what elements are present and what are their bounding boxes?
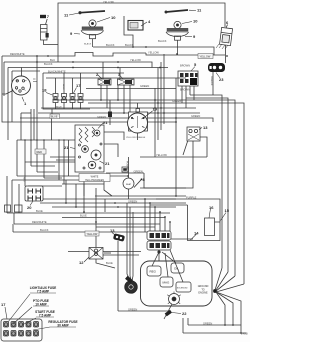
svg-text:20: 20 [27, 205, 32, 210]
svg-text:14: 14 [194, 231, 199, 236]
svg-text:BROWN: BROWN [180, 64, 190, 68]
svg-text:BLUE: BLUE [56, 106, 62, 108]
svg-text:GREEN: GREEN [134, 169, 143, 173]
svg-text:7: 7 [47, 14, 50, 19]
svg-text:11: 11 [64, 13, 69, 18]
svg-text:GREEN: GREEN [128, 199, 137, 203]
svg-text:YELLOW: YELLOW [148, 50, 159, 54]
svg-text:BROWN: BROWN [180, 88, 190, 92]
svg-text:9: 9 [70, 31, 73, 36]
svg-text:GREEN: GREEN [128, 307, 137, 311]
svg-text:YELLOW: YELLOW [156, 153, 167, 157]
svg-text:GREEN: GREEN [203, 321, 212, 325]
svg-text:14GB: 14GB [241, 332, 248, 336]
svg-text:GREEN: GREEN [172, 99, 181, 103]
svg-text:BLUE: BLUE [62, 84, 64, 90]
svg-text:21: 21 [103, 120, 108, 125]
svg-text:YELLOW/ORANGE: YELLOW/ORANGE [126, 136, 146, 139]
svg-text:PURPLE: PURPLE [186, 196, 197, 200]
svg-text:OIL: OIL [174, 267, 179, 271]
svg-text:BLACK: BLACK [40, 228, 49, 232]
svg-text:ENGINE: ENGINE [198, 292, 208, 295]
svg-text:21: 21 [105, 161, 110, 166]
svg-text:10: 10 [111, 15, 116, 20]
svg-text:17: 17 [1, 302, 6, 307]
svg-text:RED: RED [23, 177, 25, 182]
svg-text:BLUE: BLUE [36, 209, 43, 213]
svg-text:13: 13 [110, 228, 115, 233]
svg-text:11: 11 [197, 8, 202, 13]
svg-text:RED/WHITE: RED/WHITE [10, 52, 25, 56]
svg-text:YELLOW: YELLOW [200, 54, 211, 58]
svg-text:9: 9 [193, 34, 196, 39]
svg-text:15: 15 [225, 208, 230, 213]
svg-text:13: 13 [203, 125, 208, 130]
svg-text:8: 8 [143, 177, 146, 182]
svg-text:BLUE: BLUE [51, 116, 58, 119]
svg-text:YELLOW: YELLOW [103, 0, 114, 4]
svg-text:BLACK: BLACK [125, 43, 134, 47]
svg-text:BLACK/WHITE: BLACK/WHITE [48, 69, 66, 73]
svg-text:RED/WHITE: RED/WHITE [32, 220, 47, 224]
svg-text:BLUE: BLUE [106, 261, 113, 265]
svg-text:1: 1 [24, 101, 27, 106]
svg-text:GREEN: GREEN [97, 115, 106, 119]
svg-text:BLUE: BLUE [80, 213, 87, 217]
svg-text:SEAT: SEAT [126, 183, 132, 186]
svg-text:YELLOW/GREEN: YELLOW/GREEN [85, 179, 104, 182]
svg-text:19: 19 [153, 107, 158, 112]
svg-text:PURPLE: PURPLE [126, 161, 128, 170]
svg-text:BLACK: BLACK [158, 39, 167, 43]
svg-text:GREEN: GREEN [140, 84, 149, 88]
svg-text:GREEN: GREEN [191, 114, 200, 118]
svg-text:SOLENOID: SOLENOID [177, 288, 188, 290]
svg-text:5: 5 [194, 62, 197, 67]
svg-text:ORANGE: ORANGE [210, 76, 213, 86]
svg-text:4: 4 [148, 19, 151, 24]
svg-text:BLACK: BLACK [44, 62, 53, 66]
svg-text:BLACK: BLACK [84, 43, 92, 46]
svg-text:YELLOW: YELLOW [130, 58, 141, 62]
svg-text:MAG: MAG [163, 281, 171, 285]
svg-text:6: 6 [226, 20, 229, 25]
svg-text:22: 22 [182, 311, 187, 316]
svg-text:BLU: BLU [50, 58, 55, 62]
svg-text:REG: REG [150, 270, 157, 274]
svg-text:16: 16 [209, 205, 214, 210]
svg-text:18: 18 [42, 88, 47, 93]
svg-text:RED: RED [37, 150, 43, 154]
svg-text:12: 12 [79, 260, 84, 265]
svg-text:YELLOW: YELLOW [87, 232, 98, 236]
svg-text:BLACK: BLACK [106, 43, 115, 47]
svg-text:10: 10 [193, 19, 198, 24]
svg-text:17: 17 [76, 83, 81, 88]
svg-text:21: 21 [64, 145, 69, 150]
